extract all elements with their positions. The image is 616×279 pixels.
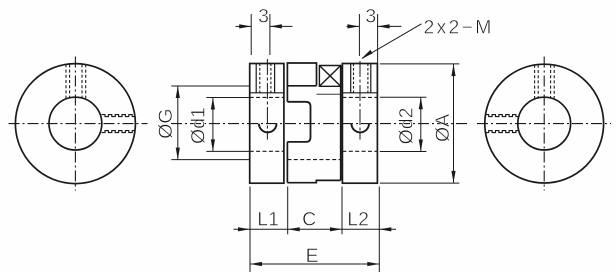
dimension Ød2 <box>380 97 427 151</box>
disk left edge lower <box>286 142 288 183</box>
svg-text:Ød1: Ød1 <box>188 107 210 144</box>
svg-text:E: E <box>306 245 319 267</box>
disk hidden diameter line (ØG) <box>287 159 340 161</box>
left view right set screw hole (hidden thread lines) <box>102 115 135 133</box>
center view horizontal centerline <box>171 123 468 125</box>
right outer circle (ØA) <box>485 64 604 183</box>
right view horizontal centerline <box>477 123 611 125</box>
dimension ØG <box>171 86 249 160</box>
right view left set screw hole (hidden thread lines) <box>485 115 518 133</box>
svg-text:3: 3 <box>365 5 376 27</box>
left set screw arc symbol <box>259 124 277 133</box>
dimension E <box>250 262 379 266</box>
svg-text:2x2−M: 2x2−M <box>424 16 494 38</box>
left hub tapped hole hidden lines <box>259 64 261 93</box>
right view top set screw hole (hidden thread lines) <box>535 65 555 98</box>
right set screw arc symbol <box>351 124 369 133</box>
disk right edge <box>340 66 342 181</box>
left hub outline (side view) <box>250 64 284 184</box>
right bore circle (Ød2) <box>518 97 571 150</box>
dimension 3 (right hub set screw position) <box>347 14 402 63</box>
left hub bore hidden lines <box>250 96 284 98</box>
dimension Ød1 <box>206 98 249 152</box>
left view top set screw hole (hidden thread lines) <box>66 64 86 98</box>
right hub slot floor line <box>342 92 377 94</box>
right hub outline (side view) <box>342 64 377 184</box>
left view horizontal centerline <box>9 123 148 125</box>
disk hidden edge under X-box <box>317 93 341 95</box>
dimension row L1 C L2 <box>234 187 397 273</box>
left outer circle (ØA) <box>15 64 135 184</box>
left bore circle (Ød1) <box>49 97 102 150</box>
disk middle step (near-side slot) <box>287 102 310 142</box>
svg-text:Ød2: Ød2 <box>396 108 418 145</box>
svg-text:L2: L2 <box>347 208 369 230</box>
left view vertical centerline <box>74 57 76 191</box>
right view vertical centerline <box>543 57 545 191</box>
right hub tapped hole solid lines <box>350 64 352 93</box>
label 2x2-M with leader <box>361 24 421 59</box>
left set screw axis line <box>266 59 268 140</box>
dimension ØA <box>380 64 459 183</box>
dimension 3 (left hub set screw position) <box>236 14 293 55</box>
left hub tapped hole solid lines <box>255 64 257 93</box>
svg-text:C: C <box>302 208 316 230</box>
right hub bore hidden lines <box>342 96 377 98</box>
disk top-left tongue block <box>287 63 316 102</box>
svg-text:3: 3 <box>258 5 269 27</box>
svg-text:ØG: ØG <box>155 108 177 138</box>
svg-text:ØA: ØA <box>432 114 454 142</box>
svg-text:L1: L1 <box>257 208 279 230</box>
right set screw axis line <box>359 61 361 140</box>
disk bottom edge with notch <box>287 180 340 182</box>
disk insert X-box <box>319 66 340 87</box>
left hub slot floor line <box>250 92 284 94</box>
right hub tapped hole hidden lines <box>353 64 355 93</box>
